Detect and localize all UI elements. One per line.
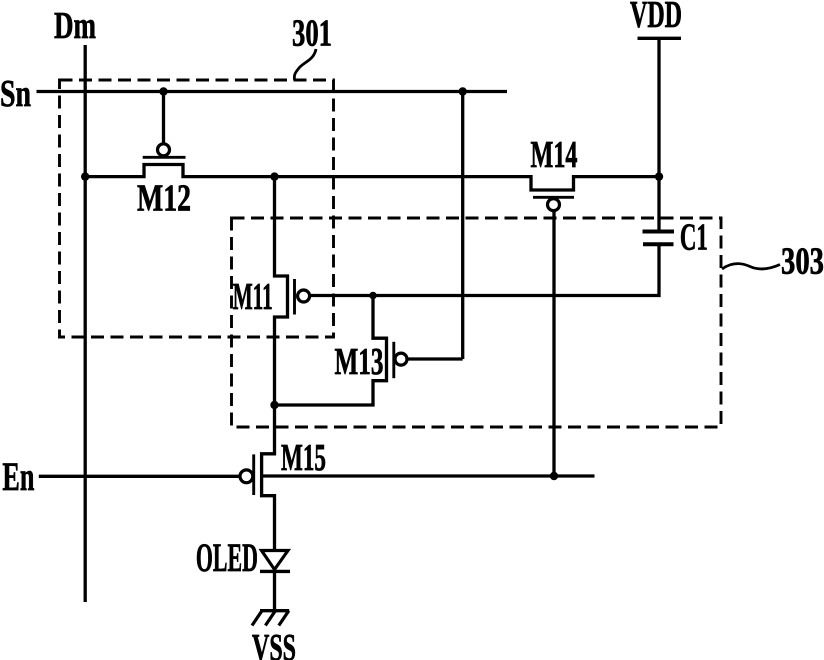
junction dot Sn-M12 gate <box>159 87 167 95</box>
transistor M15 gate bubble <box>240 470 253 483</box>
leader squiggle 303 <box>722 264 780 269</box>
transistor M12 gate bubble <box>158 144 170 156</box>
svg-text:VSS: VSS <box>252 627 296 660</box>
transistor M14 gate bubble <box>548 199 560 211</box>
svg-text:VDD: VDD <box>630 0 682 36</box>
svg-text:M12: M12 <box>137 178 191 220</box>
svg-text:Dm: Dm <box>54 5 96 47</box>
transistor M13 gate bar <box>392 342 395 378</box>
wire Sn scan line horizontal <box>37 90 508 93</box>
svg-text:303: 303 <box>781 241 824 283</box>
svg-text:OLED: OLED <box>196 535 258 580</box>
power VDD terminal bar <box>638 37 682 40</box>
transistor M11 gate bubble <box>298 290 310 302</box>
diode OLED triangle <box>262 551 289 570</box>
transistor M13 source-drain path with channel offset right <box>275 296 387 406</box>
svg-text:301: 301 <box>292 13 332 55</box>
svg-text:C1: C1 <box>680 217 708 259</box>
svg-text:M11: M11 <box>233 276 273 318</box>
wire Sn branch vertical down to M13 gate <box>461 92 464 360</box>
wire Dm data line vertical <box>84 45 87 602</box>
wire M13 gate horizontal <box>407 357 462 360</box>
transistor M15 source-drain path with channel offset left <box>262 405 275 550</box>
transistor M14 gate bar <box>533 196 574 199</box>
dashed box 303 <box>232 218 722 427</box>
svg-text:M13: M13 <box>335 341 384 383</box>
leader squiggle 301 <box>294 49 316 80</box>
transistor M15 gate bar <box>252 454 255 495</box>
svg-text:M15: M15 <box>281 437 326 479</box>
junction dot Sn-M13 gate branch <box>459 87 467 95</box>
capacitor C1 top plate <box>643 230 675 234</box>
ground VSS hatch stroke 1 <box>252 611 262 626</box>
junction dot M14 gate to En-side wire <box>550 472 558 480</box>
junction dot rail-M11 branch <box>270 172 278 180</box>
svg-text:Sn: Sn <box>0 73 31 115</box>
transistor M12 gate bar <box>143 156 186 159</box>
transistor M12 gate stem <box>162 92 165 144</box>
junction dot M11 gate wire to M13 branch <box>369 292 377 300</box>
transistor M11 gate bar <box>293 279 296 315</box>
ground VSS hatch stroke 3 <box>279 611 289 626</box>
wire VDD node down to C1 top plate <box>657 176 660 232</box>
svg-text:M14: M14 <box>531 134 578 176</box>
transistor M11 source-drain path with channel offset right <box>275 177 288 405</box>
wire C1 bottom plate down then left to M11 gate <box>310 244 659 295</box>
wire M15 right-side horizontal to M14 gate node <box>262 474 595 477</box>
wire top rail y=176 with M12 hump and M14 dip <box>85 165 659 191</box>
svg-text:En: En <box>2 454 34 499</box>
diode OLED cathode bar <box>260 570 290 573</box>
wire M14 gate vertical down to En rail <box>552 211 555 476</box>
transistor M13 gate bubble <box>395 353 407 365</box>
ground VSS hatch stroke 2 <box>265 611 275 626</box>
ground VSS symbol bar <box>260 609 289 612</box>
dashed box 301 <box>60 80 334 337</box>
wire En horizontal to M15 gate bubble <box>39 475 240 478</box>
junction dot Dm-rail <box>81 172 89 180</box>
junction dot rail-VDD-C1 <box>655 172 663 180</box>
junction dot M13/M11 drain node <box>270 401 278 409</box>
capacitor C1 bottom plate <box>643 242 674 246</box>
wire OLED cathode down to VSS <box>273 571 276 610</box>
wire VDD vertical to top rail <box>657 38 660 176</box>
